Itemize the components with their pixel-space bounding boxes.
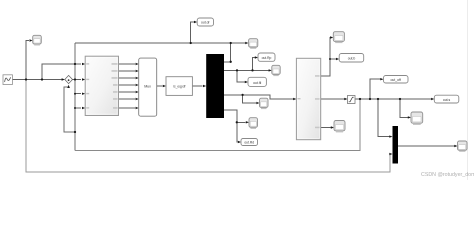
wire: long top line to scope1: [75, 42, 245, 44]
wire: long bottom feedback to mux2 lower input: [26, 80, 391, 173]
into out.dr: [245, 42, 248, 44]
input arrowheads: [30, 21, 458, 155]
out.b block: [339, 54, 364, 63]
wire: branch to scopeA: [243, 95, 256, 103]
svg-text:out.Rp: out.Rp: [262, 56, 272, 60]
wire: subsystem1 out4 to mux: [119, 84, 136, 86]
scope3 (fed from subsystem2 out3): [334, 121, 345, 133]
wire: branch to out.b: [330, 58, 337, 60]
subsystem1 in2: [82, 93, 85, 95]
wire: demux out1 to out.Rp: [224, 61, 231, 63]
scope1: [249, 39, 258, 49]
into out.off: [389, 135, 392, 137]
eq block: [166, 77, 192, 96]
into mux2 top: [389, 153, 392, 155]
svg-text:out.Rd: out.Rd: [244, 141, 254, 145]
wire: stub riser to subsystem input 3: [75, 93, 81, 95]
wire: branch down to scope4: [400, 99, 408, 117]
out.dr block: [197, 18, 213, 26]
port label smudges: [86, 63, 117, 108]
into scopeT: [336, 58, 339, 60]
scope TL: [33, 35, 42, 45]
out.Rp block: [258, 53, 275, 61]
into out.fil: [293, 98, 296, 100]
wire: branch up to top-left scope: [26, 41, 29, 80]
wire: subsystem1 out2 to mux: [119, 70, 136, 72]
into out.Rd: [330, 36, 333, 38]
into diamond left: [67, 85, 70, 88]
wire: subsystem1 out5 to mux: [119, 91, 136, 93]
scope5: [458, 141, 468, 152]
subsystem1 in4: [136, 63, 139, 65]
into scope4: [331, 126, 334, 128]
into scopeB: [238, 141, 241, 143]
wire: subsystem1 out7 to mux: [119, 107, 136, 109]
wire: subsystem2 out1 riser: [321, 38, 331, 77]
into sat: [431, 98, 434, 100]
into scope2: [245, 81, 248, 83]
wire: eq block to demux: [192, 85, 202, 87]
wire: feedback into diamond bottom: [64, 87, 75, 132]
svg-text:out.s: out.s: [443, 98, 451, 102]
wire: subsystem2 out2 to sat block: [321, 98, 345, 100]
saturation block: [348, 96, 356, 104]
svg-text:rs_eqpdf: rs_eqpdf: [173, 84, 186, 88]
scopeA: [260, 98, 269, 109]
svg-text:out.dr: out.dr: [201, 20, 211, 24]
out.fil block: [248, 77, 266, 86]
manual switch (diamond): [65, 75, 73, 83]
svg-text:out.fil: out.fil: [253, 81, 261, 85]
wire: branch up to out.off: [370, 79, 381, 99]
wire: branch to out.fil: [237, 70, 245, 82]
out.Rd block: [241, 139, 258, 146]
into out.b: [344, 98, 347, 100]
into mux2 bottom: [408, 116, 411, 118]
up into diamond bottom: [82, 63, 85, 65]
wire: stub riser to subsystem input 4: [75, 107, 81, 109]
wire: demux out3 to subsystem2: [224, 95, 294, 99]
into scope1: [255, 56, 258, 58]
wire: demux out4 to scopeB: [224, 110, 246, 122]
wire: bottom feedback line y=150.5: [75, 99, 360, 151]
wire: subsystem1 out3 to mux: [119, 77, 136, 79]
wire: riser out2 line up to out.Rp: [253, 58, 256, 71]
svg-text:out.b: out.b: [348, 57, 356, 61]
wire: subsystem1 out6 to mux: [119, 98, 136, 100]
wire: diamond output to subsystem input 2: [73, 79, 82, 81]
subsystem1 in3: [82, 107, 85, 109]
into scopeA: [246, 121, 249, 123]
demux (black bar): [206, 54, 224, 118]
wire: riser to out.dr: [191, 22, 194, 43]
wire: mux1 output to eq block: [157, 85, 163, 87]
into out.Rp: [269, 69, 272, 71]
mux1 block: [139, 58, 157, 116]
source block: [3, 75, 12, 85]
wire: vertical joining long line and demux out1: [230, 43, 232, 62]
subsystem1 in1: [82, 78, 85, 80]
into demux: [194, 21, 197, 23]
out.off block: [384, 76, 409, 84]
subsystem 1: [85, 56, 118, 115]
svg-text:CSDN @rotudyer_domi: CSDN @rotudyer_domi: [421, 172, 474, 178]
subsystem 2: [296, 58, 320, 139]
into scope3: [454, 145, 457, 147]
scope2: [272, 65, 280, 76]
page right border: [467, 0, 469, 180]
out.s block: [434, 95, 459, 103]
wire: branch down to mux2 top input: [378, 99, 390, 137]
wire: branch to out.Rd: [236, 122, 239, 142]
into out.s: [380, 78, 383, 80]
scope4: [411, 112, 423, 125]
wire: riser x=75: [74, 43, 76, 151]
into scope TL: [62, 78, 65, 80]
scopeT (top, fed from subsystem2 out1): [333, 32, 344, 43]
into eq: [203, 85, 206, 87]
wire: subsystem1 out1 to mux: [119, 63, 136, 65]
wire: source output main line: [13, 79, 63, 81]
wire: subsystem2 out3 to scope3: [321, 127, 331, 129]
wire: sat to out.s long line: [355, 98, 431, 100]
wire: branch to subsystem input 1: [42, 64, 81, 80]
wire: mux2 output to scope5: [398, 145, 456, 147]
scopeB: [249, 118, 258, 129]
svg-text:Mux: Mux: [144, 84, 151, 88]
wire: demux out2 to scope2: [224, 69, 269, 71]
into subsystem2: [256, 102, 259, 104]
mux2 (black bar): [393, 126, 399, 164]
svg-text:out_off: out_off: [391, 78, 401, 82]
